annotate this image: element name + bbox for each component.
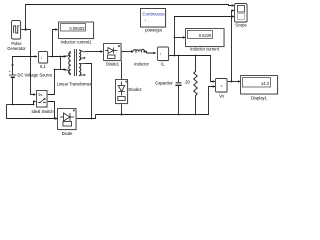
svg-text:Vo: Vo [219,94,225,99]
node diode out junction [91,118,93,120]
node Vo output junction [231,81,233,83]
node resistor top [195,55,197,57]
wire pulse to scope (top long wire) [26,5,232,30]
svg-text:DC Voltage Source: DC Voltage Source [18,73,54,78]
transformer linear transformer icon [65,49,86,76]
wire Diode1 out to Inductor [121,51,132,53]
display1 block [241,76,279,96]
svg-text:v: v [221,84,223,88]
svg-text:20: 20 [185,80,190,85]
node IL scope tap [174,55,176,57]
wire Vo output to Display1 [227,81,239,83]
diode2 block (vertical) [116,80,129,105]
arrow into ideal switch gate [33,93,36,95]
node pulse output junction [25,28,27,30]
wire riser to transformer primary- [60,57,62,70]
arrow into Diode [55,117,58,119]
arrow into transformer primary+ [64,55,67,57]
svg-text:0.09403: 0.09403 [69,26,85,31]
svg-text:Inductor current: Inductor current [190,47,220,52]
svg-text:Diode2: Diode2 [129,87,143,92]
node battery plus port [12,64,14,66]
svg-text:powergui: powergui [145,28,162,33]
wire transformer secondary to Diode1 [85,51,101,53]
svg-text:Scope: Scope [235,23,247,28]
current measurement IL [158,47,170,62]
arrow into Vo minus [213,85,216,87]
svg-text:Capacitor: Capacitor [155,81,173,86]
wire IL1 out to transformer primary+ [48,56,65,58]
node capacitor top [178,55,180,57]
ideal switch block [37,91,49,109]
pulse generator block [12,21,22,41]
wire DC source top to IL1 [13,57,37,75]
node battery rail junction [12,104,14,106]
scope block [235,4,249,24]
wire ideal switch upper-right to primary- node [47,70,55,95]
wire bottom rail secondary [96,87,216,115]
node resistor bottom [195,114,197,116]
arrow scope input1 [232,4,235,7]
DC voltage source battery symbol [9,75,17,77]
resistor R 20 ohm zigzag [194,56,198,115]
wire Diode2 stem top [121,52,123,80]
node primary lower tap [60,56,62,58]
voltage measurement Vo [216,79,229,94]
svg-text:Diode1: Diode1 [106,62,120,67]
wire gate riser to ideal switch [31,30,34,95]
wire IL riser to scope [175,17,232,56]
svg-text:Display1: Display1 [251,96,267,101]
node IL output port [168,55,170,57]
node switch upper junction [54,69,56,71]
node diode input junction [54,118,56,120]
svg-text:14.3: 14.3 [261,81,270,86]
node Diode2 bottom rail junction [121,114,123,116]
arrow into Diode1 [100,50,103,52]
wire DC source bottom rail [13,78,35,105]
wire IL out top rail [168,56,214,82]
powergui block [141,9,167,29]
wire rail extension left [7,104,13,106]
wire pulse generator output [21,29,31,31]
svg-text:Diode: Diode [62,131,73,136]
current measurement IL1 [39,52,49,65]
arrow into Display1 [238,80,241,82]
wire battery rail to Diode input (lower-left loop) [7,105,57,119]
node display inductor current tap [174,37,176,39]
wire transformer primary- horizontal [55,69,65,71]
wire transformer secondary2 riser [85,64,92,119]
wire ideal switch lower-right riser [47,102,55,119]
node capacitor bottom [178,114,180,116]
arrow scope input2 [232,9,235,12]
arrow into ideal switch lower-left [33,100,36,102]
arrow into IL [153,52,156,54]
svg-text:IL1: IL1 [40,64,46,69]
inductor L symbol [131,49,146,52]
arrow into transformer primary- [64,68,67,70]
node switch rail junction [33,104,35,106]
svg-text:Inductor current1: Inductor current1 [61,40,93,45]
svg-text:Inductor: Inductor [134,62,149,67]
svg-text:0.5226: 0.5226 [199,33,212,38]
node Diode2 top junction [121,51,123,53]
arrow into display Inductor current [183,36,186,38]
svg-text:Linear Transformer: Linear Transformer [57,82,92,87]
node IL1 display tap [52,56,54,58]
svg-text:? ↓: ? ↓ [144,19,150,24]
diode1 block [104,44,123,62]
wire capacitor bottom stub [178,86,180,115]
arrow into Vo plus [213,80,216,82]
svg-text:Continuous: Continuous [142,12,165,17]
svg-text:Generator: Generator [7,46,26,51]
diode block [58,109,78,131]
wire Diode output to rail [77,115,96,119]
display block Inductor current1 [59,22,95,40]
capacitor C plates [176,82,182,84]
wire tap to display Inductor current [175,37,184,39]
arrow into display Inductor current1 [55,28,58,30]
arrow scope input3 [232,15,235,18]
svg-text:Ideal Switch: Ideal Switch [31,109,54,114]
wire Diode2 stem bottom to rail [121,104,123,115]
arrow into IL1 [35,55,38,57]
wire Inductor to IL [145,52,154,54]
wire riser to display Inductor current1 [53,30,56,57]
wire Vo riser to scope [231,11,233,82]
display block Inductor current [186,29,226,48]
node before Diode1 [100,51,102,53]
wire capacitor top stub [178,56,180,83]
